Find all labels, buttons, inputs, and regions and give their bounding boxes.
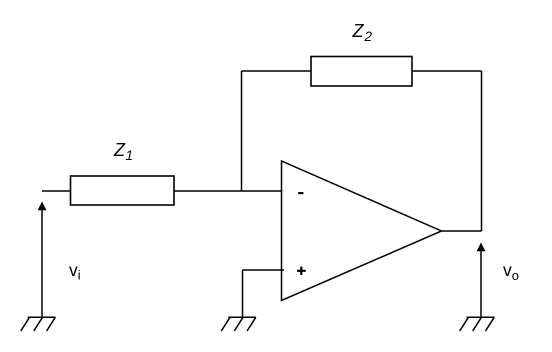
svg-text:Z: Z xyxy=(352,21,365,41)
svg-text:i: i xyxy=(78,268,81,283)
wire feedback riser left xyxy=(241,71,243,191)
svg-text:Z: Z xyxy=(113,140,126,160)
ground left xyxy=(21,317,56,331)
svg-text:v: v xyxy=(69,260,78,280)
wire feedback riser right xyxy=(481,71,483,231)
impedance Z2 xyxy=(311,57,412,87)
ground middle xyxy=(221,317,256,331)
wire output xyxy=(442,230,482,232)
arrow vi xyxy=(41,210,43,318)
wire feedback top right xyxy=(412,70,482,72)
op-amp U1 xyxy=(282,161,442,301)
svg-text:v: v xyxy=(503,260,512,280)
svg-text:o: o xyxy=(512,268,519,283)
op-amp minus sign xyxy=(298,192,303,194)
impedance Z1 xyxy=(71,176,175,205)
op-amp plus sign xyxy=(297,267,306,275)
wire Z1 to inverting input xyxy=(174,190,282,192)
wire feedback top left xyxy=(242,70,312,72)
wire noninverting input xyxy=(243,269,285,271)
arrow vo xyxy=(480,251,482,318)
svg-text:2: 2 xyxy=(364,29,373,44)
wire input left segment xyxy=(42,190,71,192)
ground right xyxy=(460,317,495,331)
wire noninverting to ground xyxy=(242,270,244,317)
svg-text:1: 1 xyxy=(126,148,134,163)
